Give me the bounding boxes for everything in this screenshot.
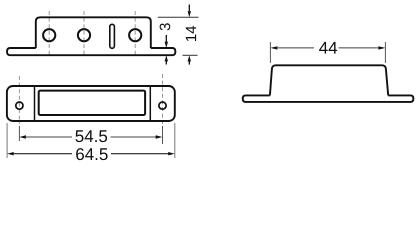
- dimension 64.5 line and arrows: [7, 152, 175, 155]
- slot (side view): [110, 24, 115, 48]
- extension line top edge (for dim 14): [158, 16, 199, 18]
- front view raised body outline: [270, 65, 388, 95]
- screw hole right (plan view): [159, 102, 166, 109]
- centerline screw hole right (plan view): [162, 74, 164, 124]
- extension tick left (for dim 44): [269, 42, 271, 63]
- dimension 44 label: [319, 42, 337, 54]
- plan view outer outline: [7, 86, 175, 121]
- plan view step line left: [34, 87, 36, 121]
- dimension 14 lower arrow: [188, 55, 191, 64]
- side view body outline: [36, 17, 151, 48]
- dimension 54.5 label: [75, 130, 107, 142]
- plan view step line right: [149, 87, 151, 121]
- dimension 3 upper arrow: [165, 35, 168, 48]
- dimension 14 label: [186, 26, 196, 41]
- front view flange outline: [243, 95, 414, 102]
- centerline hole 3 (side view): [134, 11, 136, 55]
- dimension 54.5 line and arrows: [19, 135, 162, 138]
- dimension 3 label: [160, 23, 171, 30]
- centerline hole 1 (side view): [48, 11, 50, 55]
- dimension 64.5 label: [76, 148, 108, 160]
- dimension 14 upper arrow: [188, 5, 191, 18]
- hole 2 (side view): [78, 29, 90, 41]
- hole 3 (side view): [129, 29, 141, 41]
- extension line flange bottom (for dim 14): [183, 54, 198, 56]
- extension line for dim 64.5 right: [174, 123, 176, 158]
- dimension 3 lower arrow: [165, 55, 168, 64]
- screw hole left (plan view): [16, 102, 23, 109]
- hole 1 (side view): [43, 29, 55, 41]
- centerline hole 2 (side view): [83, 11, 85, 55]
- extension line for dim 54.5 right: [162, 126, 164, 144]
- plan view inner plate: [39, 91, 145, 115]
- extension line for dim 54.5 left: [18, 126, 20, 141]
- extension tick right (for dim 44): [384, 42, 386, 63]
- dimension 44 line and arrows: [270, 46, 385, 49]
- centerline screw hole left (plan view): [18, 76, 20, 124]
- side view flange outline: [7, 48, 175, 55]
- extension line for dim 64.5 left: [6, 123, 8, 158]
